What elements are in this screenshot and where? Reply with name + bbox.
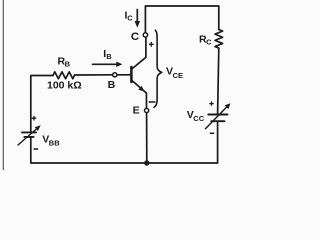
svg-text:CC: CC: [193, 114, 204, 123]
svg-text:E: E: [133, 104, 140, 116]
svg-text:B: B: [108, 79, 116, 91]
svg-text:C: C: [206, 38, 212, 47]
svg-text:B: B: [65, 60, 71, 69]
svg-text:B: B: [106, 52, 112, 61]
svg-text:100 kΩ: 100 kΩ: [47, 80, 82, 92]
svg-text:C: C: [127, 14, 133, 23]
svg-text:BB: BB: [49, 139, 60, 148]
svg-text:CE: CE: [173, 71, 183, 80]
svg-text:C: C: [131, 31, 139, 43]
